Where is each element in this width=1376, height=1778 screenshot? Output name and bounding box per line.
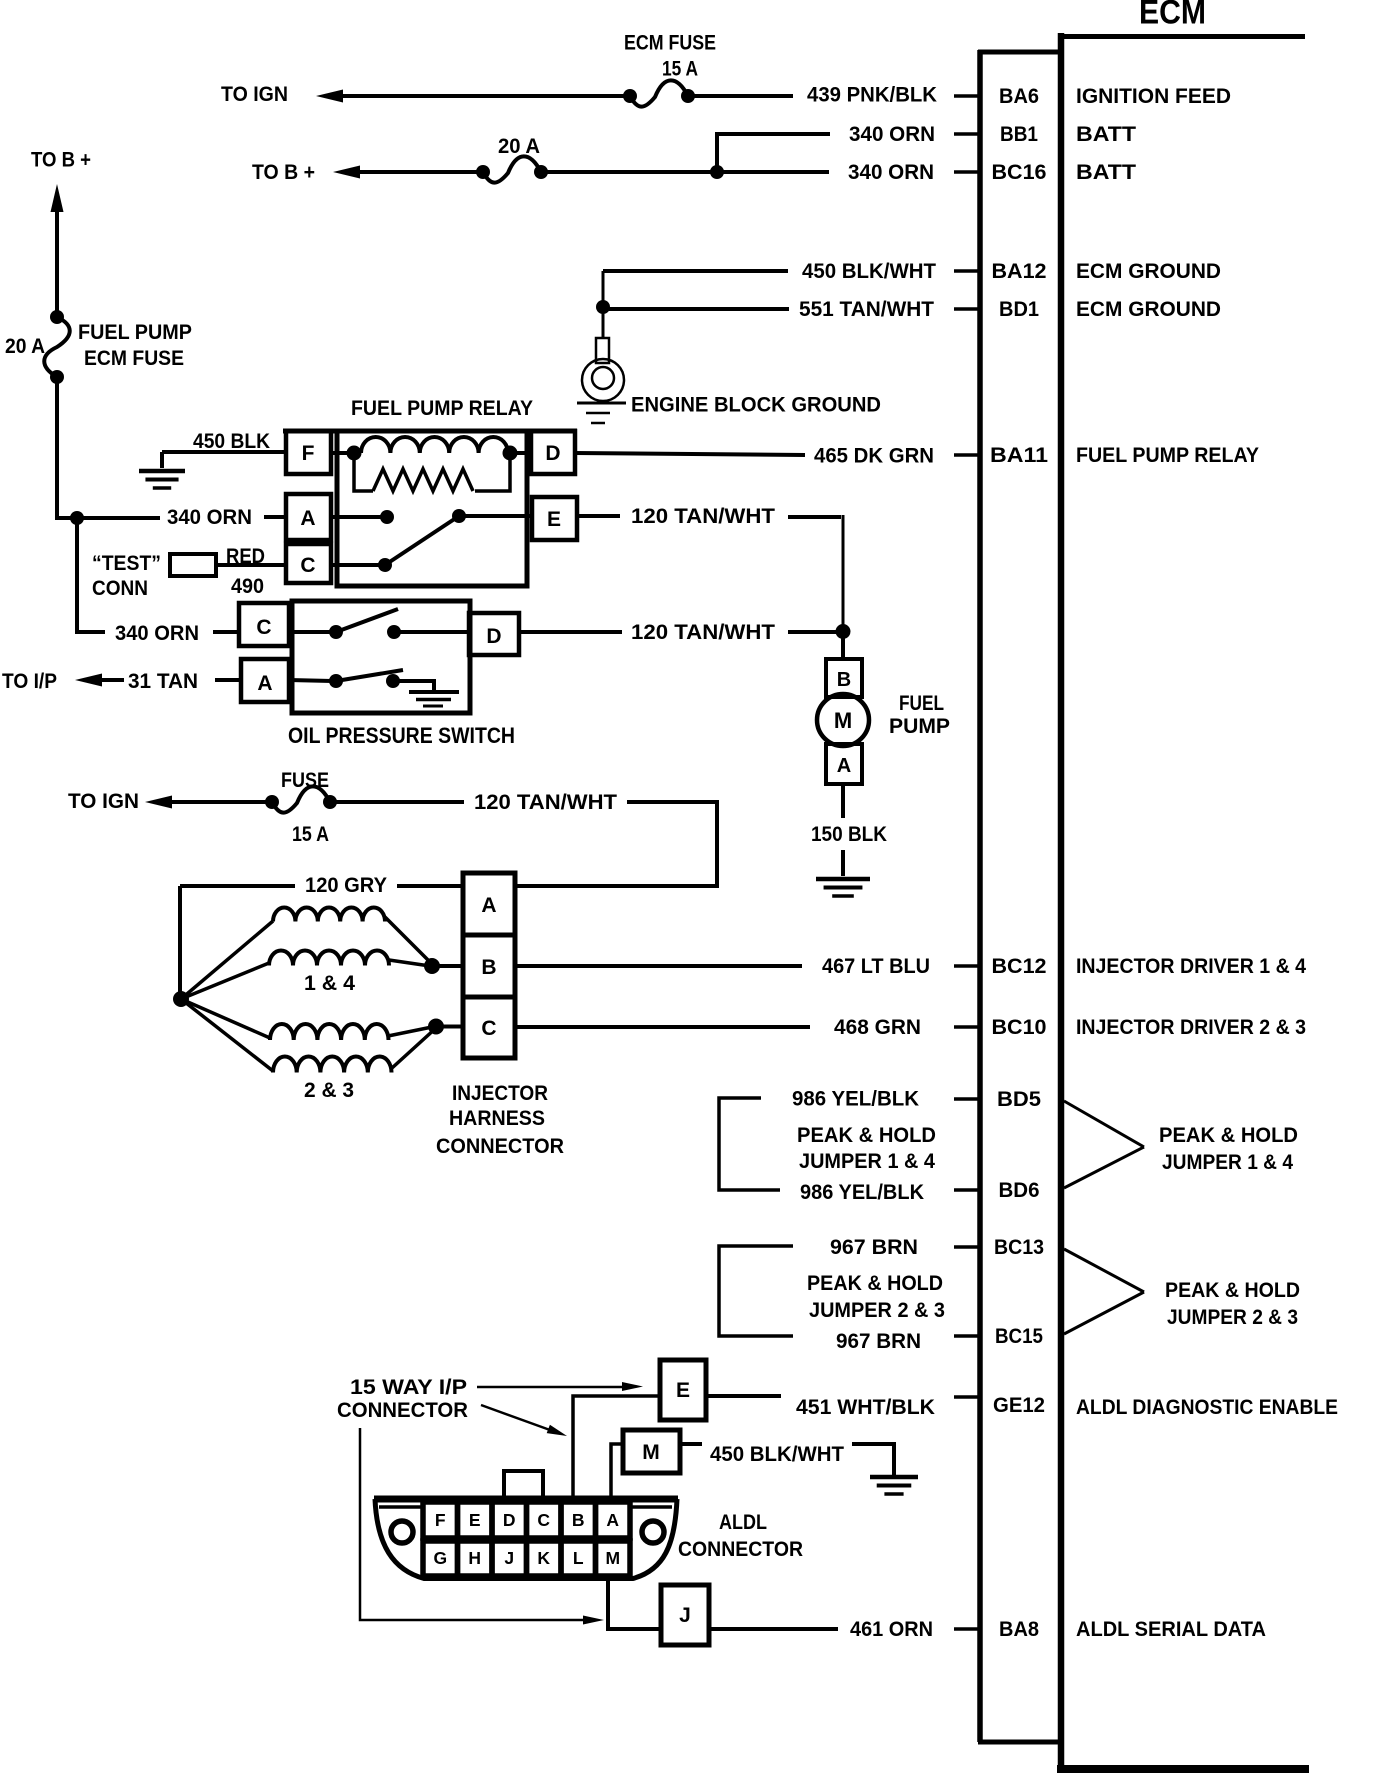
svg-text:A: A [481,894,496,917]
wire to 15A fuse [163,800,268,804]
node switch contact C [329,625,343,639]
test connector box [170,554,216,576]
svg-text:C: C [481,1017,496,1040]
relay pin D box [531,431,575,474]
pin GE12 tick [954,1395,978,1399]
svg-text:A: A [300,507,315,530]
svg-text:B: B [837,669,851,691]
svg-text:C: C [256,616,271,639]
svg-text:BC12: BC12 [992,954,1047,978]
svg-text:15 A: 15 A [292,822,329,846]
svg-text:461 ORN: 461 ORN [850,1617,933,1641]
pin BC12 tick [954,964,978,968]
jumper 2 & 3 pointer [1064,1249,1144,1292]
wire 340 ORN into pin A [264,515,286,519]
svg-text:L: L [573,1548,584,1568]
svg-text:M: M [834,708,852,733]
svg-text:GE12: GE12 [993,1393,1045,1417]
switch pin A box [241,659,289,702]
svg-text:967 BRN: 967 BRN [830,1235,918,1259]
fuse FUEL PUMP ECM FUSE 20A [50,310,64,324]
node switch contact A [329,674,343,688]
wire to fuel pump B [841,632,845,659]
wire 340 ORN to switch pin C [213,630,239,634]
svg-text:A: A [606,1510,619,1530]
relay pin C box [286,544,331,583]
svg-text:450 BLK/WHT: 450 BLK/WHT [710,1442,844,1466]
svg-text:BD6: BD6 [999,1178,1040,1202]
svg-text:M: M [605,1548,620,1568]
wire 450 BLK/WHT (BA12) [603,269,788,273]
wire 468 GRN (BC10) [515,1025,810,1029]
svg-text:E: E [547,508,561,531]
ALDL connector band lines [379,1505,422,1509]
svg-text:2 & 3: 2 & 3 [304,1078,354,1102]
svg-text:TO B +: TO B + [252,160,315,184]
svg-text:551 TAN/WHT: 551 TAN/WHT [799,297,934,321]
injector connector pin A box [463,873,515,935]
relay resistor loop [354,453,373,491]
wire ground drop [602,271,605,338]
node switch contact D [387,625,401,639]
wire 120 TAN/WHT to fuel pump [788,515,841,519]
wire 31 TAN [93,678,124,682]
svg-text:JUMPER 2 & 3: JUMPER 2 & 3 [809,1298,945,1322]
svg-text:BC13: BC13 [994,1235,1044,1259]
wire battery feed vertical [55,206,59,313]
node relay contact A [380,510,394,524]
svg-text:467 LT BLU: 467 LT BLU [822,954,930,978]
ECM module outline [1058,33,1065,1770]
svg-text:D: D [503,1510,516,1530]
svg-text:BA6: BA6 [999,84,1039,108]
svg-text:RED: RED [226,544,265,568]
wire pin M to J box [608,1578,661,1629]
wire 465 DK GRN (BA11) [575,453,805,455]
ALDL pin J box [661,1585,709,1645]
oil pressure switch body [292,601,470,713]
wire injector common [178,886,182,999]
pin BA8 tick [954,1627,978,1631]
svg-text:ECM FUSE: ECM FUSE [624,31,716,55]
svg-text:PEAK & HOLD: PEAK & HOLD [807,1271,943,1295]
svg-text:150 BLK: 150 BLK [811,822,887,846]
relay body [337,431,527,586]
arrow to instrument panel [75,674,102,687]
svg-text:G: G [433,1548,447,1568]
wire to ALDL ground [852,1444,894,1475]
svg-text:468 GRN: 468 GRN [834,1015,921,1039]
wire coil to D [513,451,531,455]
svg-text:INJECTOR: INJECTOR [452,1081,548,1105]
jumper 1 & 4 pointer [1064,1101,1144,1147]
svg-text:PUMP: PUMP [889,714,950,738]
svg-text:TO IGN: TO IGN [68,789,139,813]
svg-text:M: M [642,1441,660,1464]
svg-text:340 ORN: 340 ORN [849,122,935,146]
node switch ground contact [386,674,400,688]
wire 551 TAN/WHT (BD1) [603,307,789,311]
wire 120 TAN/WHT to injector connector A [515,802,717,886]
svg-text:B: B [572,1510,585,1530]
svg-text:BA8: BA8 [999,1617,1039,1641]
svg-text:H: H [468,1548,481,1568]
ground relay pin F [139,469,185,474]
ALDL mounting hole left [391,1521,413,1543]
relay pin A box [286,494,331,540]
arrow to battery (left, up) [51,184,64,212]
wire C to arm [331,563,379,567]
wire C into switch [289,630,332,634]
ECM connector strip [977,50,983,1742]
fuel pump terminal B [826,659,862,697]
node injector common [173,991,189,1007]
svg-text:TO I/P: TO I/P [2,669,57,693]
wire 439 PNK/BLK [692,94,793,98]
wire F to coil [331,451,352,455]
ring terminal (engine block ground) [596,338,609,363]
svg-text:1 & 4: 1 & 4 [304,971,355,995]
svg-text:E: E [676,1379,690,1402]
node fuel pump feed [836,624,851,639]
svg-text:JUMPER 1 & 4: JUMPER 1 & 4 [1162,1150,1293,1174]
svg-text:“TEST”: “TEST” [92,551,161,575]
jumper bracket 2 & 3 [719,1246,793,1336]
svg-text:ALDL: ALDL [719,1510,767,1534]
injector coil 4 (bottom of 1 & 4) [181,963,269,999]
pin BC10 tick [954,1025,978,1029]
wire 120 TAN/WHT from switch D [519,630,622,634]
svg-text:15 WAY I/P: 15 WAY I/P [350,1375,467,1399]
svg-text:PEAK & HOLD: PEAK & HOLD [1159,1123,1298,1147]
svg-text:BD5: BD5 [997,1087,1041,1111]
wire contact to D [394,630,469,634]
svg-text:F: F [302,442,315,465]
wire A into switch [289,680,332,681]
svg-text:J: J [504,1548,514,1568]
svg-text:C: C [300,554,315,577]
jumper bracket 1 & 4 [719,1098,780,1190]
svg-text:490: 490 [231,574,264,598]
ALDL connector shell [375,1499,677,1579]
ground fuel pump [816,877,870,882]
svg-text:ECM: ECM [1139,0,1206,32]
pin BB1 tick [954,132,978,136]
svg-text:TO IGN: TO IGN [221,82,288,106]
svg-text:ECM GROUND: ECM GROUND [1076,259,1221,283]
wire RED 490 to relay pin C [216,563,286,567]
fuse ECM FUSE 15A [623,89,637,103]
svg-text:340 ORN: 340 ORN [115,621,199,645]
node junction 340 ORN [710,165,724,179]
svg-text:J: J [679,1604,691,1627]
svg-text:BA12: BA12 [992,259,1047,283]
wire 120 GRY [180,884,295,888]
wire contact to E [465,514,532,518]
svg-text:INJECTOR DRIVER 2 & 3: INJECTOR DRIVER 2 & 3 [1076,1015,1306,1039]
svg-text:ALDL SERIAL DATA: ALDL SERIAL DATA [1076,1617,1266,1641]
injector coil 1 (top of 1 & 4) [181,921,273,999]
svg-text:451 WHT/BLK: 451 WHT/BLK [796,1395,935,1419]
arrow to ignition (top) [316,90,343,103]
ALDL pin M box [623,1430,680,1473]
switch arm (C-D) [336,609,398,632]
svg-text:340 ORN: 340 ORN [848,160,934,184]
ALDL connector tab [504,1471,543,1496]
svg-text:ECM GROUND: ECM GROUND [1076,297,1221,321]
svg-text:FUEL PUMP RELAY: FUEL PUMP RELAY [351,396,533,420]
svg-text:TO B +: TO B + [31,148,91,172]
injector coil 2 (top of 2 & 3) [181,999,270,1038]
svg-text:340 ORN: 340 ORN [167,505,252,529]
pointer arrow to connector [481,1405,550,1430]
wire 340 ORN branch to BB1 [717,134,830,170]
ALDL mounting hole right [642,1521,664,1543]
fuel pump motor M1 [817,694,869,746]
svg-text:120 TAN/WHT: 120 TAN/WHT [631,620,775,644]
injector connector pin B box [463,935,515,997]
relay coil [361,437,508,453]
ALDL pin E box [660,1360,706,1420]
wire 120 TAN/WHT from relay E [577,514,620,518]
injector connector pin C box [463,997,515,1058]
svg-text:465 DK GRN: 465 DK GRN [814,444,934,468]
wire 461 ORN (BA8) [709,1627,838,1631]
svg-text:A: A [837,755,851,777]
node relay feed junction [70,511,84,525]
wire to pin C [436,1025,463,1029]
wire 340 ORN to relay pin A [77,516,160,520]
svg-text:E: E [469,1510,481,1530]
svg-text:CONNECTOR: CONNECTOR [436,1134,564,1158]
ground oil pressure switch [409,690,459,694]
relay switch arm [385,516,459,565]
wire fused B+ down to relay feed [57,381,74,518]
svg-text:BC15: BC15 [995,1324,1043,1348]
wire to ECM fuse [334,94,628,98]
wire A to contact [331,515,381,519]
node ground junction [596,300,610,314]
svg-text:20 A: 20 A [5,334,45,358]
wire 450 BLK to ground [162,450,286,454]
pin BC15 tick [954,1334,978,1338]
svg-text:A: A [257,672,272,695]
svg-text:HARNESS: HARNESS [449,1106,545,1130]
svg-text:120 TAN/WHT: 120 TAN/WHT [631,504,775,528]
svg-text:986 YEL/BLK: 986 YEL/BLK [792,1087,919,1111]
wire 120 TAN/WHT from fuse [334,800,464,804]
pin BD1 tick [954,307,978,311]
svg-text:FUEL PUMP RELAY: FUEL PUMP RELAY [1076,443,1259,467]
svg-text:ALDL DIAGNOSTIC ENABLE: ALDL DIAGNOSTIC ENABLE [1076,1395,1338,1419]
fuel pump terminal A [826,744,862,784]
svg-text:BD1: BD1 [999,297,1039,321]
svg-text:31 TAN: 31 TAN [128,669,198,693]
wire to internal ground [393,681,434,690]
pin BD5 tick [954,1097,978,1101]
svg-text:CONNECTOR: CONNECTOR [337,1398,468,1422]
svg-text:ECM FUSE: ECM FUSE [84,346,184,370]
node coil right [503,446,518,461]
arrow to ignition (fuse row) [145,796,172,809]
wire to pin B [432,964,463,968]
svg-text:BC16: BC16 [992,160,1047,184]
injector coil 3 (bottom of 2 & 3) [181,999,273,1071]
pin BA6 tick [954,94,978,98]
relay pin E box [532,497,577,540]
svg-text:JUMPER 1 & 4: JUMPER 1 & 4 [799,1149,935,1173]
wire 467 LT BLU (BC12) [515,964,802,968]
wire pin A to M box [611,1444,623,1504]
svg-text:120 GRY: 120 GRY [305,873,387,897]
wire 340 ORN to junction [545,170,829,174]
switch pin C box [239,603,289,646]
svg-text:439 PNK/BLK: 439 PNK/BLK [807,83,937,107]
switch arm (A-gnd) [336,670,403,681]
svg-text:FUEL: FUEL [899,691,944,715]
wire pin B to E box [573,1396,660,1504]
svg-text:D: D [545,442,560,465]
svg-text:BA11: BA11 [990,443,1048,467]
wire 451 WHT/BLK (GE12) [706,1394,781,1398]
svg-text:K: K [537,1548,550,1568]
svg-text:D: D [486,625,501,648]
fuse 20A (battery feed) [476,165,490,179]
svg-text:20 A: 20 A [498,134,540,158]
svg-text:OIL PRESSURE SWITCH: OIL PRESSURE SWITCH [288,723,515,748]
pin BA11 tick [954,453,978,457]
fuse 15A (ignition) [265,795,279,809]
switch pin D box [469,613,519,655]
svg-text:450 BLK: 450 BLK [193,429,270,453]
svg-text:B: B [481,956,496,979]
ground engine block [577,402,626,405]
node injector drivers 2 & 3 [428,1019,444,1035]
svg-text:BB1: BB1 [1000,122,1038,146]
svg-text:JUMPER 2 & 3: JUMPER 2 & 3 [1167,1305,1298,1329]
node coil left [347,446,362,461]
svg-text:CONNECTOR: CONNECTOR [678,1537,803,1561]
node injector drivers 1 & 4 [424,958,440,974]
arrow to battery (center) [333,166,360,179]
svg-text:CONN: CONN [92,576,148,600]
svg-text:120 TAN/WHT: 120 TAN/WHT [474,790,617,814]
svg-text:986 YEL/BLK: 986 YEL/BLK [800,1180,924,1204]
svg-text:450 BLK/WHT: 450 BLK/WHT [802,259,936,283]
pin BD6 tick [954,1188,978,1192]
svg-text:INJECTOR DRIVER 1 & 4: INJECTOR DRIVER 1 & 4 [1076,954,1306,978]
svg-text:F: F [435,1510,446,1530]
wire down to oil pressure switch [77,518,105,632]
wire 150 BLK [841,784,845,818]
svg-text:BC10: BC10 [992,1015,1047,1039]
svg-text:BATT: BATT [1076,160,1136,184]
ALDL pin grid [423,1502,458,1538]
wire 450 BLK/WHT (ALDL ground) [680,1442,702,1446]
svg-text:FUEL PUMP: FUEL PUMP [78,320,192,344]
wire 120 TAN/WHT to fuel pump node [788,630,840,634]
wire to 20A fuse [351,170,481,174]
pin BC16 tick [954,170,978,174]
svg-text:BATT: BATT [1076,122,1136,146]
svg-text:IGNITION FEED: IGNITION FEED [1076,84,1231,108]
svg-text:PEAK & HOLD: PEAK & HOLD [1165,1278,1300,1302]
svg-text:ENGINE BLOCK GROUND: ENGINE BLOCK GROUND [631,393,881,417]
pin BA12 tick [954,269,978,273]
svg-text:C: C [537,1510,550,1530]
svg-text:967 BRN: 967 BRN [836,1329,921,1353]
node relay arm pivot [378,558,392,572]
svg-text:PEAK & HOLD: PEAK & HOLD [797,1123,936,1147]
svg-text:15 A: 15 A [662,57,698,81]
ground ALDL [870,1475,918,1480]
pin BC13 tick [954,1245,978,1249]
pointer arrow to ALDL pin M wire [360,1428,586,1620]
relay pin F box [286,431,331,474]
node relay contact E [452,509,466,523]
pointer arrow to ALDL pin E [477,1386,624,1389]
relay top edge [283,429,577,434]
